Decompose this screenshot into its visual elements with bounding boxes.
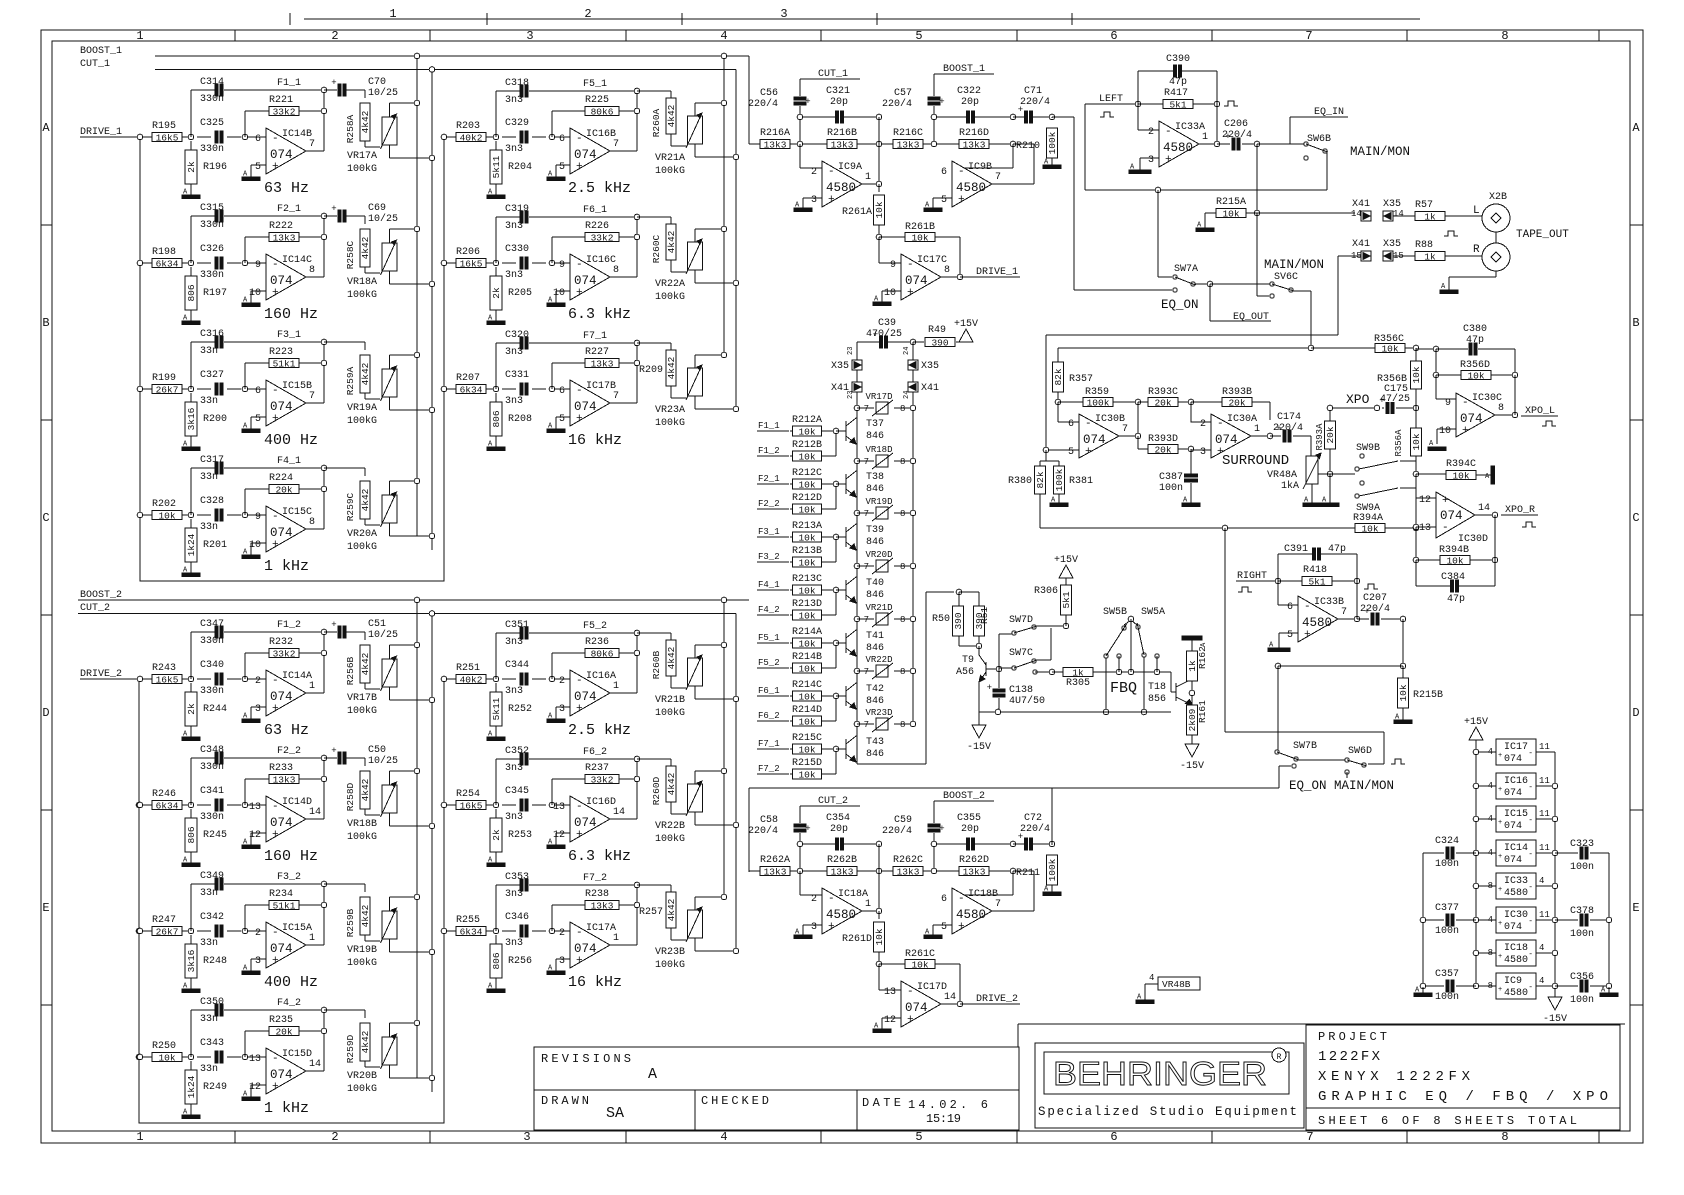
svg-text:14.02. 6: 14.02. 6 <box>908 1098 988 1112</box>
pulse glyph right in <box>1238 587 1252 592</box>
ground right of R394C <box>1491 466 1495 484</box>
svg-text:846: 846 <box>866 484 884 495</box>
svg-text:IC16C: IC16C <box>586 255 616 266</box>
svg-text:-: - <box>576 927 583 939</box>
svg-text:R226: R226 <box>585 221 609 232</box>
svg-text:9: 9 <box>1445 398 1451 409</box>
svg-text:IC9B: IC9B <box>968 162 992 173</box>
svg-text:2.5 kHz: 2.5 kHz <box>568 180 631 197</box>
svg-text:T18: T18 <box>1148 682 1166 693</box>
resistor R256 <box>495 935 497 944</box>
op-amp IC14A <box>266 670 306 716</box>
potentiometer VR19B <box>364 935 366 941</box>
wire ladder right bus <box>912 392 914 724</box>
wire EQ net down to SW7A <box>1157 190 1159 277</box>
svg-text:390: 390 <box>931 337 948 348</box>
resistor R246 <box>152 801 182 810</box>
node F4_1 output <box>306 528 324 530</box>
svg-text:+: + <box>1462 425 1469 437</box>
svg-text:E: E <box>1632 901 1639 915</box>
svg-text:390: 390 <box>953 612 964 629</box>
svg-text:R: R <box>1277 1053 1282 1062</box>
ground for op-amp + input <box>251 1084 266 1086</box>
svg-text:5k1: 5k1 <box>1308 576 1325 587</box>
op-amp IC16C <box>570 254 610 300</box>
svg-text:VR22B: VR22B <box>655 821 685 832</box>
capacitor C346 <box>520 925 523 937</box>
svg-text:100kG: 100kG <box>655 959 685 971</box>
wire XPO_L feedback top row <box>1416 348 1436 350</box>
capacitor C390 <box>1137 71 1139 104</box>
svg-text:100n: 100n <box>1435 926 1459 937</box>
svg-text:220/4: 220/4 <box>1020 823 1050 835</box>
feedback resistor R234 <box>244 905 246 931</box>
svg-text:R215D: R215D <box>792 758 822 769</box>
resistor R198 <box>152 259 182 268</box>
svg-text:4k42: 4k42 <box>666 356 677 379</box>
svg-text:Specialized Studio Equipment: Specialized Studio Equipment <box>1038 1105 1297 1119</box>
svg-text:3n3: 3n3 <box>505 270 523 281</box>
pot wiring to boost/cut buses <box>694 897 696 910</box>
svg-text:7: 7 <box>864 509 869 519</box>
svg-text:1: 1 <box>389 7 396 21</box>
svg-text:F3_2: F3_2 <box>277 872 301 883</box>
svg-text:R204: R204 <box>508 162 532 173</box>
svg-text:10k: 10k <box>798 691 815 702</box>
svg-text:F1_1: F1_1 <box>758 421 780 431</box>
svg-text:11: 11 <box>1539 742 1550 752</box>
svg-text:220/4: 220/4 <box>882 825 912 837</box>
resistor R199 <box>152 385 182 394</box>
svg-text:806: 806 <box>491 952 502 969</box>
svg-text:F5_1: F5_1 <box>758 633 780 643</box>
svg-text:F1_2: F1_2 <box>758 446 780 456</box>
svg-text:7: 7 <box>1122 424 1128 435</box>
ground for IC33B + <box>1279 632 1298 634</box>
svg-text:80k6: 80k6 <box>591 648 614 659</box>
svg-text:C384: C384 <box>1441 572 1465 583</box>
svg-text:-: - <box>828 893 835 905</box>
svg-text:-: - <box>272 385 279 397</box>
svg-text:10k: 10k <box>1467 370 1484 381</box>
junction node <box>188 676 194 682</box>
svg-text:F7_2: F7_2 <box>583 873 607 884</box>
ground for IC30C + <box>1437 428 1456 430</box>
svg-text:VR48A: VR48A <box>1267 470 1297 481</box>
svg-text:10k: 10k <box>874 928 885 945</box>
svg-text:7: 7 <box>1306 1130 1313 1144</box>
svg-text:VR19B: VR19B <box>347 945 377 956</box>
svg-text:-: - <box>1217 418 1224 430</box>
svg-text:+: + <box>805 97 810 107</box>
capacitor C56 electrolytic <box>794 97 806 100</box>
svg-text:82k: 82k <box>1035 471 1046 488</box>
jumper X35 pin 23 <box>856 342 858 360</box>
op-amp IC17A <box>570 922 610 968</box>
node ladder row <box>854 510 860 516</box>
resistor R214B <box>790 667 792 669</box>
wire base junction <box>835 749 837 774</box>
wire collector/emitter to ladder bus <box>856 576 857 578</box>
wire stage input row IC15B <box>140 388 152 390</box>
node F2_2 output <box>306 818 324 820</box>
svg-text:-: - <box>576 675 583 687</box>
svg-text:F2_2: F2_2 <box>277 746 301 757</box>
node ladder row <box>854 721 860 727</box>
svg-text:-: - <box>272 1053 279 1065</box>
wire stage input row IC17B <box>444 388 456 390</box>
svg-text:D: D <box>1632 706 1639 720</box>
svg-text:7: 7 <box>864 615 869 625</box>
ground for op-amp + input <box>251 832 266 834</box>
svg-text:R356D: R356D <box>1460 360 1490 371</box>
svg-text:R205: R205 <box>508 288 532 299</box>
resistor R258A <box>364 90 366 98</box>
svg-text:100kG: 100kG <box>347 541 377 553</box>
svg-text:R262A: R262A <box>760 855 790 866</box>
svg-text:C206: C206 <box>1224 119 1248 130</box>
svg-text:3: 3 <box>559 704 565 715</box>
svg-text:C330: C330 <box>505 244 529 255</box>
resistor R244 <box>190 683 192 692</box>
svg-text:13k3: 13k3 <box>273 232 296 243</box>
svg-text:R88: R88 <box>1415 240 1433 251</box>
svg-text:33k2: 33k2 <box>591 232 614 243</box>
capacitor C72 electrolytic <box>1013 843 1024 845</box>
wire to top cap <box>495 343 497 389</box>
ground <box>495 184 497 189</box>
svg-text:074: 074 <box>905 274 928 288</box>
svg-text:33n: 33n <box>200 1064 218 1075</box>
node op-amp inverting input <box>549 928 555 934</box>
svg-text:20p: 20p <box>830 824 848 835</box>
svg-text:C347: C347 <box>200 619 224 630</box>
ground <box>190 726 192 731</box>
svg-text:8: 8 <box>613 265 619 276</box>
svg-text:1: 1 <box>613 681 619 692</box>
resistor R209 <box>637 342 671 344</box>
svg-text:3n3: 3n3 <box>505 637 523 648</box>
svg-text:R224: R224 <box>269 473 293 484</box>
nodes on cap row <box>797 841 803 847</box>
capacitor C330 <box>520 257 523 269</box>
svg-text:R215A: R215A <box>1216 197 1246 208</box>
capacitor C350 <box>215 1004 218 1016</box>
svg-text:3: 3 <box>780 7 787 21</box>
svg-text:R197: R197 <box>203 288 227 299</box>
svg-text:C57: C57 <box>894 88 912 99</box>
svg-text:BEHRINGER: BEHRINGER <box>1053 1055 1267 1092</box>
ground right cap bus <box>1608 987 1610 993</box>
svg-text:63 Hz: 63 Hz <box>264 180 309 197</box>
svg-text:E: E <box>42 901 49 915</box>
wire XPO row <box>1330 407 1377 409</box>
svg-text:82k: 82k <box>1053 368 1064 385</box>
resistor R359 <box>1083 398 1113 407</box>
capacitor C316 <box>215 336 218 348</box>
svg-text:+: + <box>576 287 583 299</box>
resistor R260B <box>637 632 671 634</box>
pot wiring to boost/cut buses <box>389 771 391 785</box>
wire stage input row IC15C <box>140 514 152 516</box>
svg-text:1 kHz: 1 kHz <box>264 558 309 575</box>
op-amp IC30C <box>1435 375 1437 399</box>
svg-text:F5_1: F5_1 <box>583 79 607 90</box>
svg-text:330n: 330n <box>200 686 224 697</box>
left ruler ticks and row letters <box>41 224 52 226</box>
svg-text:C387: C387 <box>1159 472 1183 483</box>
op-amp IC14B <box>266 128 306 174</box>
svg-text:R256B: R256B <box>345 656 356 685</box>
svg-text:C329: C329 <box>505 118 529 129</box>
wire group1 boost bus <box>416 56 418 536</box>
svg-text:C317: C317 <box>200 455 224 466</box>
svg-text:1k24: 1k24 <box>186 533 197 556</box>
svg-text:23: 23 <box>847 347 855 355</box>
ground for op-amp + input <box>251 542 266 544</box>
svg-text:+: + <box>1498 819 1502 827</box>
svg-text:C174: C174 <box>1277 412 1301 423</box>
svg-text:4: 4 <box>1488 848 1493 858</box>
svg-text:IC33A: IC33A <box>1175 122 1205 133</box>
junction node <box>188 386 194 392</box>
wire stage input row IC16C <box>444 262 456 264</box>
svg-text:5: 5 <box>255 162 261 173</box>
svg-text:330n: 330n <box>200 270 224 281</box>
svg-text:R243: R243 <box>152 663 176 674</box>
svg-text:1k24: 1k24 <box>186 1075 197 1098</box>
resistor R203 <box>456 133 486 142</box>
pot wiring to boost/cut buses <box>389 645 391 659</box>
svg-text:R393B: R393B <box>1222 387 1252 398</box>
svg-text:R212B: R212B <box>792 440 822 451</box>
node F4_2 output <box>306 1070 324 1072</box>
capacitor C207 electrolytic <box>1357 618 1369 620</box>
op-amp IC33B <box>1277 581 1279 605</box>
svg-text:XPO: XPO <box>1346 392 1370 407</box>
svg-text:C377: C377 <box>1435 903 1459 914</box>
resistor R256B <box>364 632 366 640</box>
resistor R260A <box>637 90 671 92</box>
node ladder row <box>854 668 860 674</box>
svg-text:16k5: 16k5 <box>460 800 483 811</box>
svg-text:R203: R203 <box>456 121 480 132</box>
op-amp IC16A <box>570 670 610 716</box>
svg-text:F2_1: F2_1 <box>758 474 780 484</box>
svg-text:4k42: 4k42 <box>360 904 371 927</box>
svg-text:R256: R256 <box>508 956 532 967</box>
wire base junction <box>835 431 837 456</box>
potentiometer VR48A <box>1310 436 1312 456</box>
resistor R196 <box>190 141 192 150</box>
svg-text:F3_1: F3_1 <box>758 527 780 537</box>
svg-text:SV6C: SV6C <box>1274 272 1298 283</box>
resistor R215C <box>790 748 792 750</box>
svg-text:9: 9 <box>255 260 261 271</box>
wire to top cap <box>190 90 192 137</box>
svg-text:160 Hz: 160 Hz <box>264 848 318 865</box>
svg-text:+: + <box>987 683 992 693</box>
svg-text:F6_1: F6_1 <box>758 686 780 696</box>
node op-amp inverting input <box>549 386 555 392</box>
IC power block IC33 <box>1476 885 1496 887</box>
svg-text:R234: R234 <box>269 889 293 900</box>
svg-text:33k2: 33k2 <box>591 774 614 785</box>
resistor R216A <box>760 140 790 149</box>
svg-text:X35: X35 <box>921 361 939 372</box>
pot wiring to boost/cut buses <box>389 229 391 243</box>
svg-text:13k3: 13k3 <box>764 866 787 877</box>
svg-text:14: 14 <box>1478 503 1490 514</box>
svg-text:856: 856 <box>1148 694 1166 705</box>
wire right section outline bottom <box>1018 1023 1625 1025</box>
svg-text:A: A <box>1200 642 1208 647</box>
node input tap on group bus <box>441 676 447 682</box>
svg-text:1k: 1k <box>1424 251 1436 262</box>
capacitor C351 <box>520 627 523 639</box>
svg-text:4: 4 <box>1488 781 1493 791</box>
svg-text:10k: 10k <box>798 426 815 437</box>
svg-text:074: 074 <box>574 690 597 704</box>
svg-text:16 kHz: 16 kHz <box>568 432 622 449</box>
svg-text:7: 7 <box>864 667 869 677</box>
node op-amp inverting input <box>549 260 555 266</box>
svg-text:R238: R238 <box>585 889 609 900</box>
svg-text:IC15B: IC15B <box>282 381 312 392</box>
svg-text:-: - <box>1462 397 1469 409</box>
svg-text:-: - <box>1442 522 1449 534</box>
svg-text:C348: C348 <box>200 745 224 756</box>
capacitor C69 electrolytic <box>324 215 337 217</box>
svg-text:400 Hz: 400 Hz <box>264 432 318 449</box>
junction node <box>493 134 499 140</box>
wire tape jacks link <box>1495 232 1497 243</box>
svg-text:VR18A: VR18A <box>347 277 377 288</box>
svg-text:-: - <box>907 259 914 271</box>
svg-text:T37: T37 <box>866 419 884 430</box>
svg-text:X41: X41 <box>921 383 939 394</box>
svg-text:3: 3 <box>523 1130 530 1144</box>
trimmer VR48B <box>1158 977 1200 990</box>
svg-text:074: 074 <box>270 690 293 704</box>
capacitor C377 <box>1423 919 1444 921</box>
svg-text:C350: C350 <box>200 997 224 1008</box>
wire collector/emitter to ladder bus <box>856 682 857 684</box>
wire emitter row <box>979 711 1171 713</box>
svg-text:+: + <box>272 287 279 299</box>
svg-text:13: 13 <box>1419 523 1431 534</box>
svg-text:B: B <box>1632 316 1639 330</box>
resistor R210 to ground <box>1051 117 1053 118</box>
wire group1 col2 cut bus <box>735 70 737 411</box>
svg-text:4580: 4580 <box>1504 955 1528 966</box>
svg-text:C325: C325 <box>200 118 224 129</box>
svg-text:A: A <box>648 1066 657 1083</box>
svg-text:10/25: 10/25 <box>368 87 398 99</box>
ground under R393A wiper node <box>1329 474 1331 503</box>
pot wiring to boost/cut buses <box>389 355 391 369</box>
svg-text:1: 1 <box>1202 132 1208 143</box>
svg-text:FBQ: FBQ <box>1110 680 1137 697</box>
svg-text:-: - <box>576 385 583 397</box>
svg-text:+: + <box>805 824 810 834</box>
svg-text:R195: R195 <box>152 121 176 132</box>
svg-text:5: 5 <box>941 195 947 206</box>
node feedback junction <box>876 234 882 240</box>
svg-text:100n: 100n <box>1435 992 1459 1003</box>
svg-text:X35: X35 <box>831 361 849 372</box>
resistor R214D <box>790 720 792 722</box>
wire stage input row IC14D <box>140 804 152 806</box>
resistor R215D <box>790 773 792 775</box>
svg-text:EQ_ON: EQ_ON <box>1161 298 1199 312</box>
junction node <box>188 134 194 140</box>
svg-text:074: 074 <box>1460 412 1483 426</box>
svg-text:20k: 20k <box>1154 444 1171 455</box>
svg-text:R261B: R261B <box>905 222 935 233</box>
wire collector/emitter to ladder bus <box>856 417 857 419</box>
svg-text:10k: 10k <box>1452 470 1469 481</box>
ground under R381 <box>1058 494 1060 503</box>
capacitor C325 <box>215 131 218 143</box>
svg-text:074: 074 <box>1440 509 1463 523</box>
svg-text:330n: 330n <box>200 94 224 105</box>
nodes on cap row <box>797 114 803 120</box>
svg-text:F3_2: F3_2 <box>758 552 780 562</box>
pot wiring to boost/cut buses <box>389 1023 391 1037</box>
svg-text:R394C: R394C <box>1446 459 1476 470</box>
node F1_1 output <box>306 150 324 152</box>
resistor R262A <box>760 867 790 876</box>
svg-text:C353: C353 <box>505 872 529 883</box>
svg-text:R216A: R216A <box>760 128 790 139</box>
wire eq return bus <box>749 787 1279 789</box>
svg-text:4k42: 4k42 <box>666 898 677 921</box>
wire to top cap <box>190 1010 192 1057</box>
svg-text:1: 1 <box>309 681 315 692</box>
svg-text:13k3: 13k3 <box>963 866 986 877</box>
svg-text:13k3: 13k3 <box>831 866 854 877</box>
svg-text:C342: C342 <box>200 912 224 923</box>
resistor R214A <box>790 642 792 644</box>
svg-text:1k: 1k <box>1424 211 1436 222</box>
capacitor C391 <box>1277 554 1279 581</box>
svg-text:4580: 4580 <box>1504 988 1528 999</box>
resistor R305 <box>1033 670 1037 674</box>
pot wiring to boost/cut buses <box>694 103 696 116</box>
svg-text:C345: C345 <box>505 786 529 797</box>
capacitor C344 <box>520 673 523 685</box>
wire stage input row IC15A <box>140 930 152 932</box>
svg-text:074: 074 <box>1504 922 1522 933</box>
resistor R393B <box>1191 401 1222 403</box>
svg-text:846: 846 <box>866 749 884 760</box>
resistor R206 <box>456 259 486 268</box>
ground for op-amp + input <box>251 164 266 166</box>
wire to top cap <box>190 468 192 515</box>
revisions box <box>534 1047 1019 1130</box>
ground for op-amp + input <box>251 416 266 418</box>
svg-text:C349: C349 <box>200 871 224 882</box>
resistor R216D <box>959 140 989 149</box>
node op-amp inverting input <box>549 134 555 140</box>
svg-text:+: + <box>907 287 914 299</box>
svg-text:1: 1 <box>865 172 871 183</box>
node op-amp inverting input <box>242 1054 248 1060</box>
svg-text:R261D: R261D <box>842 934 872 945</box>
svg-text:6: 6 <box>255 386 261 397</box>
partial ruler strip from adjoining sheet at very top <box>304 18 1420 20</box>
